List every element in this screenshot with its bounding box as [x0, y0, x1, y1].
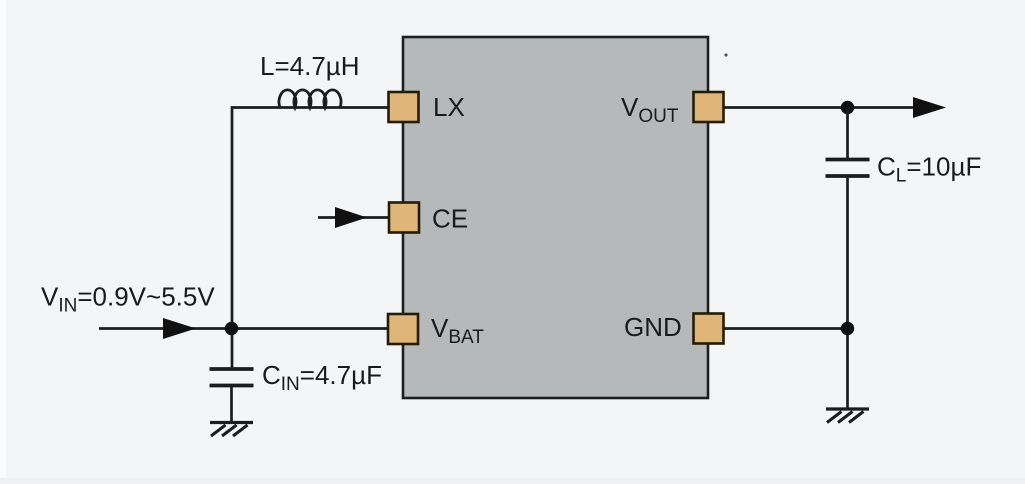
wire: GND pin to node [723, 327, 848, 330]
pin VBAT pad [388, 314, 418, 344]
svg-text:VOUT: VOUT [621, 92, 679, 127]
arrow: VOUT output direction [913, 97, 946, 118]
svg-text:CL=10µF: CL=10µF [877, 152, 981, 187]
svg-text:VBAT: VBAT [431, 313, 484, 348]
wire: CE input line [318, 216, 389, 219]
svg-text:GND: GND [624, 312, 682, 342]
svg-text:L=4.7µH: L=4.7µH [260, 51, 360, 81]
pin VOUT pad [694, 92, 724, 122]
svg-text:VIN=0.9V~5.5V: VIN=0.9V~5.5V [41, 282, 215, 317]
wire: VOUT node down to CL [846, 108, 849, 160]
node B: VOUT junction dot [841, 101, 854, 114]
speck artifact [724, 53, 727, 56]
svg-text:LX: LX [433, 92, 465, 122]
ground (right, under CL) [826, 409, 869, 423]
pin CE pad [389, 203, 419, 233]
wire: CL down through GND node to ground [846, 176, 849, 408]
svg-text:CIN=4.7µF: CIN=4.7µF [262, 360, 382, 395]
pin GND pad [694, 314, 724, 344]
wire: VOUT output line [723, 106, 940, 109]
pin LX pad [389, 92, 419, 122]
inductor L [279, 90, 341, 108]
wire: inductor leads and top-left corner down to VBAT node [232, 108, 388, 370]
capacitor CL [826, 160, 870, 177]
arrow: CE input direction [335, 207, 367, 228]
IC U1 body [403, 37, 708, 398]
svg-text:CE: CE [432, 204, 468, 234]
wire: VIN input line to VBAT pin [99, 327, 388, 330]
arrow: VIN input direction [163, 318, 196, 339]
node C: GND junction dot [841, 322, 854, 335]
ground (left, under CIN) [210, 423, 253, 437]
node A: VIN junction dot [225, 322, 238, 335]
capacitor CIN [210, 369, 254, 386]
wire: CIN to ground [230, 386, 233, 422]
